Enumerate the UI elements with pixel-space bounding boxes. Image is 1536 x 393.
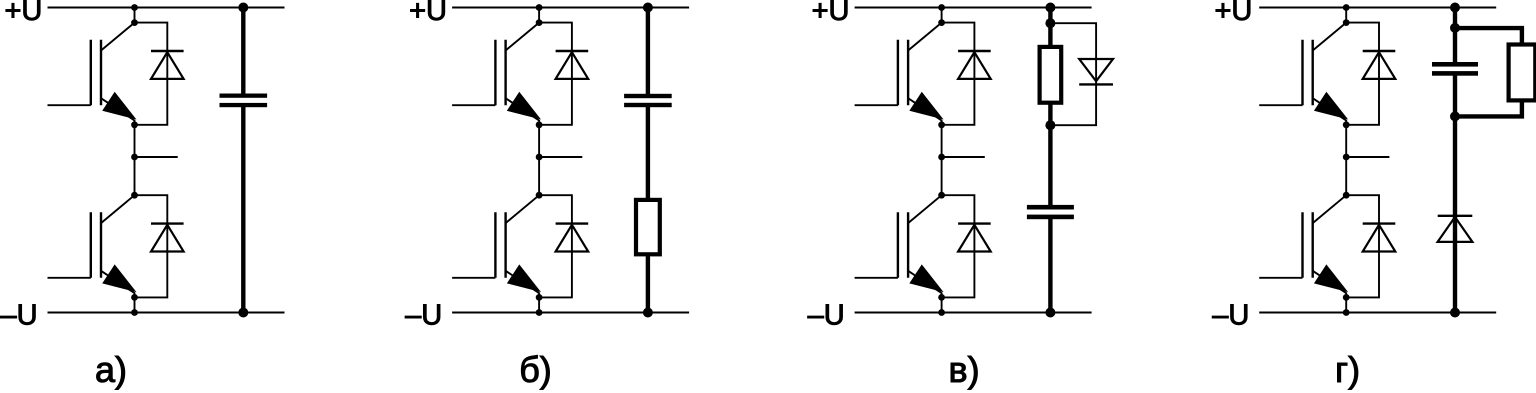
diode VD3 (freewheeling, anti-parallel) — [539, 23, 588, 125]
wire: +U top rail (circuit г) — [1259, 7, 1496, 9]
junction: R3 top / VD9 (circuit в) — [1045, 18, 1055, 28]
wire: VT1 emitter to VT2 collector (circuit а) — [134, 125, 136, 195]
transistor VT7 (IGBT) — [1259, 23, 1346, 125]
junction: phase output (circuit а) — [131, 154, 138, 161]
svg-text:г): г) — [1335, 349, 1360, 390]
junction: snubber / bottom rail (circuit а) — [238, 308, 248, 318]
junction: snubber / top rail (circuit в) — [1045, 3, 1055, 13]
wire: VT3 emitter to VT4 collector (circuit б) — [538, 125, 540, 195]
junction: top rail / centre leg (circuit б) — [536, 4, 543, 11]
wire: top rail to VT3 collector (circuit б) — [538, 8, 540, 23]
wire: +U top rail (circuit в) — [855, 7, 1092, 9]
transistor VT3 (IGBT) — [452, 23, 539, 125]
capacitor C2 (snubber RC, circuit б) — [624, 8, 672, 200]
wire: phase output stub (circuit в) — [942, 156, 985, 158]
diode VD5 (freewheeling, anti-parallel) — [942, 23, 991, 125]
diode VD2 (freewheeling, anti-parallel) — [135, 195, 184, 297]
junction: C4 top / R4 (circuit г) — [1450, 23, 1460, 33]
transistor VT4 (IGBT) — [452, 195, 539, 297]
svg-text:–U: –U — [1212, 300, 1249, 332]
net label −U (circuit б) — [405, 300, 442, 332]
junction: top rail / centre leg (circuit в) — [938, 4, 945, 11]
diode VD10 (series in snubber leg, circuit г) — [1438, 116, 1473, 312]
svg-text:+U: +U — [5, 0, 43, 27]
junction: top collector branch (circuit в) — [938, 19, 945, 26]
svg-text:+U: +U — [1215, 0, 1253, 27]
junction: bottom rail / centre leg (circuit а) — [131, 309, 138, 316]
wire: VT4 emitter to bottom rail (circuit б) — [538, 297, 540, 312]
junction: bottom rail / centre leg (circuit г) — [1343, 309, 1350, 316]
svg-text:+U: +U — [812, 0, 850, 27]
junction: bottom collector branch (circuit в) — [938, 192, 945, 199]
wire: +U top rail (circuit б) — [452, 7, 689, 9]
junction: top collector branch (circuit г) — [1343, 19, 1350, 26]
junction: snubber / top rail (circuit а) — [238, 3, 248, 13]
junction: bottom rail / centre leg (circuit в) — [938, 309, 945, 316]
wire: phase output stub (circuit г) — [1346, 156, 1389, 158]
svg-text:+U: +U — [409, 0, 447, 27]
junction: top collector branch (circuit б) — [536, 19, 543, 26]
diode VD8 (freewheeling, anti-parallel) — [1346, 195, 1395, 297]
wire: top rail to VT1 collector (circuit а) — [134, 8, 136, 23]
wire: +U top rail (circuit а) — [48, 7, 285, 9]
caption в) (circuit в) — [948, 349, 979, 390]
wire: −U bottom rail (circuit в) — [855, 312, 1092, 314]
net label +U (circuit в) — [812, 0, 850, 27]
net label +U (circuit г) — [1215, 0, 1253, 27]
wire: VT7 emitter to VT8 collector (circuit г) — [1345, 125, 1347, 195]
junction: R3 bottom / VD9 (circuit в) — [1045, 120, 1055, 130]
junction: bottom collector branch (circuit б) — [536, 192, 543, 199]
junction: phase output (circuit г) — [1343, 154, 1350, 161]
junction: snubber / top rail (circuit б) — [643, 3, 653, 13]
junction: top emitter / diode (circuit г) — [1343, 121, 1350, 128]
diode VD6 (freewheeling, anti-parallel) — [942, 195, 991, 297]
svg-text:а): а) — [95, 349, 127, 390]
junction: bottom collector branch (circuit а) — [131, 192, 138, 199]
wire: −U bottom rail (circuit б) — [452, 312, 689, 314]
caption б) (circuit б) — [519, 349, 552, 390]
junction: bottom emitter / diode (circuit в) — [938, 294, 945, 301]
junction: phase output (circuit б) — [536, 154, 543, 161]
wire: VT6 emitter to bottom rail (circuit в) — [941, 297, 943, 312]
junction: top emitter / diode (circuit в) — [938, 121, 945, 128]
junction: top collector branch (circuit а) — [131, 19, 138, 26]
wire: top rail to VT7 collector (circuit г) — [1345, 8, 1347, 23]
wire: phase output stub (circuit а) — [135, 156, 178, 158]
net label −U (circuit г) — [1212, 300, 1249, 332]
junction: C4 bottom / R4 / VD10 (circuit г) — [1450, 111, 1460, 121]
wire: VT8 emitter to bottom rail (circuit г) — [1345, 297, 1347, 312]
junction: phase output (circuit в) — [938, 154, 945, 161]
wire: top rail to VT5 collector (circuit в) — [941, 8, 943, 23]
resistor R2 (snubber RC, circuit б) — [636, 200, 660, 313]
net label +U (circuit а) — [5, 0, 43, 27]
capacitor C3 (snubber RCD, circuit в) — [1027, 102, 1074, 313]
junction: snubber / bottom rail (circuit б) — [643, 308, 653, 318]
net label +U (circuit б) — [409, 0, 447, 27]
caption г) (circuit г) — [1335, 349, 1360, 390]
wire: −U bottom rail (circuit г) — [1259, 312, 1496, 314]
wire: −U bottom rail (circuit а) — [48, 312, 285, 314]
net label −U (circuit в) — [808, 300, 845, 332]
capacitor C4 (snubber RCD, circuit г) — [1432, 8, 1478, 117]
junction: snubber / top rail (circuit г) — [1450, 3, 1460, 13]
diode VD7 (freewheeling, anti-parallel) — [1346, 23, 1395, 125]
capacitor C1 (snubber, circuit а) — [220, 8, 268, 313]
svg-text:–U: –U — [1, 300, 38, 332]
transistor VT8 (IGBT) — [1259, 195, 1346, 297]
junction: bottom emitter / diode (circuit а) — [131, 294, 138, 301]
svg-text:б): б) — [519, 349, 552, 390]
resistor R4 (parallel to C4, circuit г) — [1455, 28, 1535, 116]
junction: bottom collector branch (circuit г) — [1343, 192, 1350, 199]
caption а) (circuit а) — [95, 349, 127, 390]
wire: phase output stub (circuit б) — [539, 156, 582, 158]
transistor VT6 (IGBT) — [855, 195, 942, 297]
wire: VT2 emitter to bottom rail (circuit а) — [134, 297, 136, 312]
junction: top emitter / diode (circuit а) — [131, 121, 138, 128]
svg-text:–U: –U — [808, 300, 845, 332]
junction: bottom rail / centre leg (circuit б) — [536, 309, 543, 316]
junction: bottom emitter / diode (circuit г) — [1343, 294, 1350, 301]
net label −U (circuit а) — [1, 300, 38, 332]
diode VD4 (freewheeling, anti-parallel) — [539, 195, 588, 297]
transistor VT5 (IGBT) — [855, 23, 942, 125]
transistor VT1 (IGBT) — [48, 23, 135, 125]
junction: top rail / centre leg (circuit а) — [131, 4, 138, 11]
junction: top rail / centre leg (circuit г) — [1343, 4, 1350, 11]
junction: snubber / bottom rail (circuit г) — [1450, 308, 1460, 318]
svg-text:–U: –U — [405, 300, 442, 332]
transistor VT2 (IGBT) — [48, 195, 135, 297]
diode VD9 (charges snubber cap, parallel to R3, circuit в) — [1050, 23, 1113, 125]
diode VD1 (freewheeling, anti-parallel) — [135, 23, 184, 125]
junction: top emitter / diode (circuit б) — [536, 121, 543, 128]
resistor R3 (snubber RCD, circuit в) — [1040, 8, 1062, 103]
wire: VT5 emitter to VT6 collector (circuit в) — [941, 125, 943, 195]
junction: snubber / bottom rail (circuit в) — [1045, 308, 1055, 318]
svg-text:в): в) — [948, 349, 979, 390]
junction: bottom emitter / diode (circuit б) — [536, 294, 543, 301]
